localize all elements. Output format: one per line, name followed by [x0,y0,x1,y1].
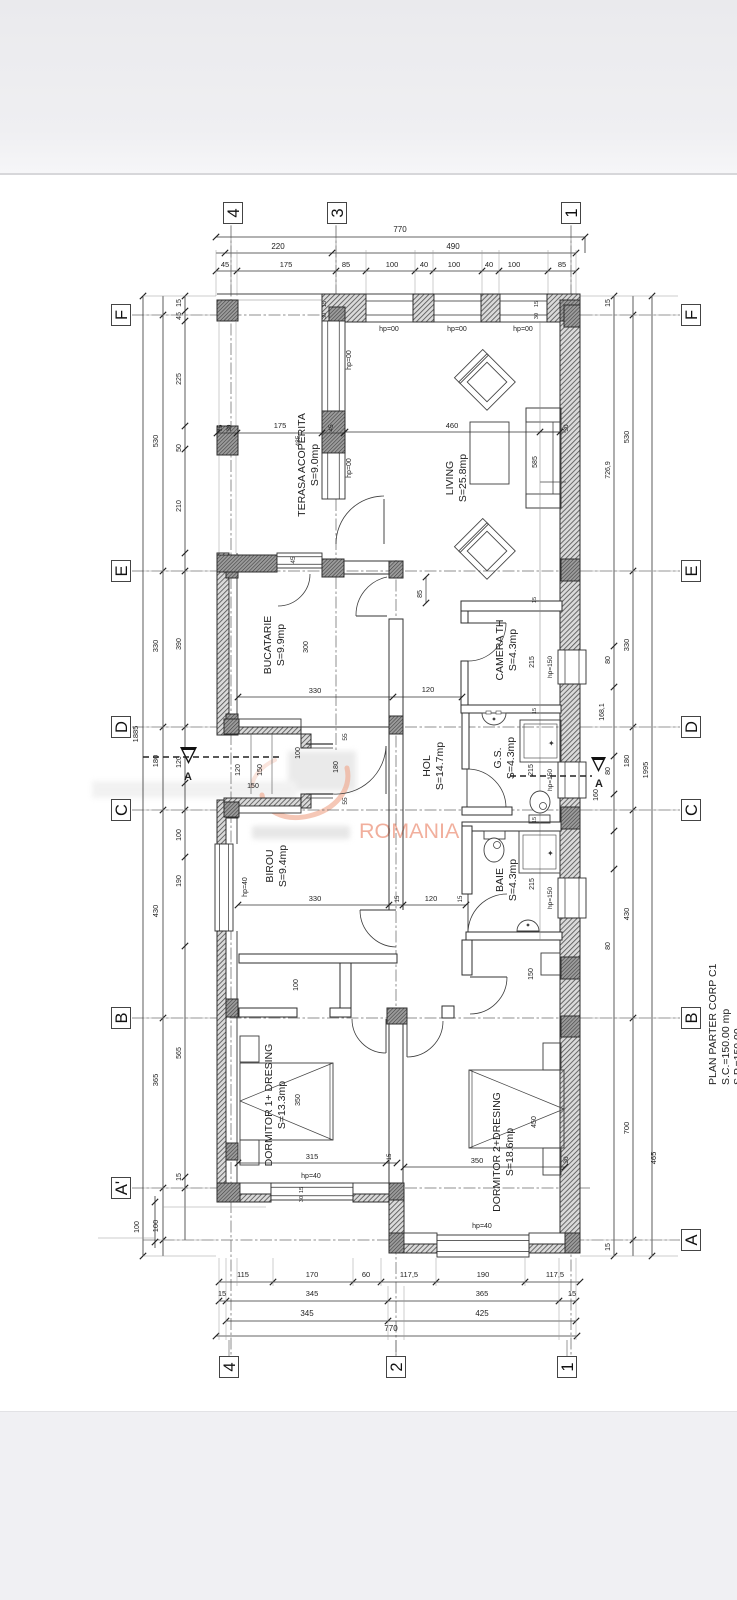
sofa living [526,408,561,508]
svg-text:770: 770 [384,1324,398,1333]
wall baie top [462,822,561,831]
svg-text:hp=00: hp=00 [379,326,399,333]
svg-text:300: 300 [303,641,310,653]
svg-text:530: 530 [151,435,160,448]
svg-text:hp=40: hp=40 [472,1223,492,1230]
door GS [466,769,468,807]
grid bubble D right [682,717,701,738]
svg-text:30: 30 [322,313,328,319]
wardrobe dorm2 top [541,953,560,975]
door kitchen-hol [356,615,387,617]
dim 85 living-hol opening [425,577,427,603]
svg-text:F: F [683,310,701,320]
grid bubble B right [682,1008,701,1029]
svg-text:117,5: 117,5 [400,1270,418,1279]
terrace left colonnade edge lines [218,321,220,553]
svg-text:15: 15 [534,301,540,307]
svg-text:215: 215 [529,878,536,890]
bottom dimension row 345/425 [226,1320,576,1322]
bottom wall right seg1 [404,1233,437,1244]
svg-text:430: 430 [151,905,160,918]
svg-text:315: 315 [306,1152,319,1161]
wall E-row kitchen top [344,560,389,562]
svg-text:S=4.3mp: S=4.3mp [507,629,519,671]
svg-text:✦: ✦ [548,739,555,748]
svg-text:S=25.8mp: S=25.8mp [457,454,469,502]
svg-text:hp=150: hp=150 [547,656,554,678]
svg-text:hp=00: hp=00 [346,458,353,478]
grid line C (horizontal) [132,809,680,811]
left grid spacing chain [162,296,164,1256]
pier D grid2 [389,716,403,734]
svg-text:DORMITOR 1+ DRESING: DORMITOR 1+ DRESING [263,1044,275,1167]
svg-text:hp=40: hp=40 [301,1173,321,1180]
top wall pier 40b [481,294,500,322]
door swing dorm1 [352,1019,386,1053]
kitchen bottom wall [224,719,301,727]
svg-text:117,5: 117,5 [546,1270,564,1279]
dorm2 dim row 350/30 [404,1166,565,1168]
svg-text:S.P.=150.00: S.P.=150.00 [732,1028,737,1085]
grid bubble 2 bottom [387,1357,406,1378]
watermark orange swirl [262,768,348,818]
svg-text:220: 220 [271,242,285,251]
svg-text:330: 330 [622,639,631,652]
svg-text:215: 215 [529,656,536,668]
svg-text:hp=40: hp=40 [242,877,249,897]
svg-text:45: 45 [176,312,183,320]
svg-text:80: 80 [605,942,612,950]
svg-text:175: 175 [274,421,287,430]
svg-text:225: 225 [176,373,183,385]
sink GS [482,713,506,725]
svg-text:F: F [113,310,131,320]
pier right C [561,807,580,829]
svg-text:G.S.: G.S. [492,747,504,768]
bottom wall seg2 hatch [353,1194,389,1202]
svg-text:115: 115 [237,1270,249,1279]
grid bubble 1 top [562,203,581,224]
left wall dorm1 [217,931,226,1183]
svg-text:3: 3 [329,208,347,217]
svg-text:770: 770 [393,225,407,234]
grid bubble B left [112,1008,131,1029]
corner column step lower [389,1233,404,1253]
door swing GS [469,769,506,807]
nightstand dorm1 bottom [240,1140,259,1165]
left inner chain [184,296,186,1240]
window terrace hp=00 lower [322,453,345,499]
dim 460 living [345,431,560,433]
svg-text:80: 80 [605,656,612,664]
right inner chain [613,296,615,1256]
top wall pier 85 [322,294,366,322]
svg-text:40: 40 [485,260,493,269]
grid bubble E right [682,561,701,582]
leader grid 3 [335,225,337,300]
svg-text:120: 120 [235,764,242,776]
right wall seg GS-BAIE [560,798,580,878]
armchair living 1 [454,349,515,410]
svg-text:D: D [113,721,131,733]
bottom dimension row total 770 [216,1335,577,1337]
grid bubble 4 bottom [220,1357,239,1378]
wall dressing stub [340,963,351,1008]
kitchen dim row 330/120 [238,696,462,698]
pier left wall B [226,999,238,1017]
left extension lines [143,295,216,297]
grid bubble F right [682,305,701,326]
svg-text:85: 85 [417,590,424,598]
svg-text:85: 85 [342,260,350,269]
svg-text:15: 15 [458,895,464,902]
grid bubble A right [682,1230,701,1251]
bed dorm1 [240,1063,333,1140]
window camera tehnica hp=150 [558,650,586,684]
left outer chain 1885 [142,296,144,1256]
door swing kitchen-hol [356,577,387,616]
wall baie left [462,826,472,894]
svg-text:190: 190 [176,875,183,887]
svg-text:BIROU: BIROU [264,849,276,882]
svg-text:2: 2 [388,1362,406,1371]
svg-text:hp=00: hp=00 [346,350,353,370]
svg-text:530: 530 [622,431,631,444]
svg-text:15: 15 [532,597,538,603]
svg-text:45: 45 [328,424,335,432]
pier right mid [561,957,580,979]
svg-text:465: 465 [649,1152,658,1165]
svg-text:15: 15 [605,299,612,307]
sink baie [517,920,539,931]
svg-text:1: 1 [559,1362,577,1371]
grid line A (horizontal) [143,1239,680,1241]
recess wall upper [301,734,311,748]
coffee table living [470,422,509,484]
column terrace mid-left [217,426,238,455]
wall birou top hatch [224,798,301,806]
svg-text:E: E [683,565,701,576]
svg-text:4: 4 [221,1362,239,1371]
svg-text:330: 330 [309,686,322,695]
corner column step upper [389,1183,404,1200]
door terrace-living [383,499,385,544]
top wall corner pier [547,294,580,322]
svg-text:150: 150 [528,968,535,980]
extension lines top [215,250,217,296]
grid line 4 (vertical) [230,226,232,1355]
svg-text:BUCATARIE: BUCATARIE [262,616,274,675]
dim 585 extension line living [539,321,541,940]
svg-text:45: 45 [290,556,297,564]
svg-text:B: B [683,1012,701,1023]
door swing baie [468,894,507,933]
wall camera-th left stub [461,611,468,623]
grid bubble 4 top [224,203,243,224]
door dorm2 at B [406,1021,408,1057]
pier right D upper [561,688,580,719]
svg-text:450: 450 [531,1116,538,1128]
svg-text:50: 50 [176,444,183,452]
grid bubble 3 top [328,203,347,224]
pier terrace glazed wall [322,411,345,453]
svg-text:15: 15 [568,1289,576,1298]
leader grid 1 [570,225,572,296]
svg-text:S=14.7mp: S=14.7mp [434,742,446,790]
grid line B (horizontal) [132,1017,680,1019]
svg-text:S=9.4mp: S=9.4mp [277,845,289,887]
svg-text:1885: 1885 [131,726,140,743]
pier B grid2 [387,1008,407,1024]
window GS hp=150 [558,762,586,798]
door camera tehnica [468,622,506,624]
left chain 100 A'-A [154,1196,156,1248]
top dimension row 220/490 [216,252,576,254]
svg-text:180: 180 [333,761,340,773]
svg-text:215: 215 [528,764,535,776]
column terrace top-left [217,300,238,321]
svg-text:✦: ✦ [547,849,554,858]
window birou hp=40 [215,844,233,931]
svg-text:15: 15 [176,299,183,307]
svg-text:C: C [113,804,131,816]
terrace dim row 175/45 [217,432,344,434]
pier right E [561,559,580,581]
watermark blurred logo blob [92,751,356,839]
door swing dorm2 dressing [470,977,507,1014]
bottom dimension row 15/345/365/15 [219,1300,576,1302]
wall hol-dorm2 [462,940,472,975]
hol dim row 330/120 lower [238,904,466,906]
svg-text:120: 120 [176,756,183,768]
svg-text:CAMERA TH: CAMERA TH [494,619,506,680]
svg-text:120: 120 [422,685,435,694]
dorm1 dim row 315 [238,1162,397,1164]
svg-text:S.C.=150.00 mp: S.C.=150.00 mp [720,1009,732,1085]
right wall upper [560,321,580,650]
grid line F (horizontal) [132,314,680,316]
pier right F [564,305,580,327]
svg-text:30: 30 [563,424,570,432]
step wall vertical [389,1200,404,1233]
grid line E (horizontal) [132,570,680,572]
svg-text:190: 190 [477,1270,490,1279]
grid bubble F left [112,305,131,326]
wall B-row left [239,1008,297,1017]
wall GS bottom [462,807,512,815]
grid bubble 1 bottom [558,1357,577,1378]
svg-text:100: 100 [508,260,521,269]
door swing terrace-living [336,496,384,544]
glazed door terrace-kitchen [277,553,322,568]
svg-text:15: 15 [322,301,328,307]
svg-text:425: 425 [475,1309,489,1318]
svg-text:A': A' [113,1181,131,1195]
grid bubble C right [682,800,701,821]
grid bubble A' left [112,1178,131,1199]
svg-text:100: 100 [448,260,461,269]
nightstand dorm2 bottom [543,1148,561,1175]
svg-text:hp=00: hp=00 [513,326,533,333]
svg-text:PLAN PARTER CORP C1: PLAN PARTER CORP C1 [707,963,719,1085]
right extension lines [580,295,678,297]
wall B-row stub [330,1008,351,1017]
svg-text:DORMITOR 2+DRESING: DORMITOR 2+DRESING [491,1092,503,1212]
svg-text:430: 430 [622,908,631,921]
top wall pier 40 [413,294,434,322]
door baie [467,894,469,933]
recess wall lower [301,794,311,808]
door swing camera-th [468,623,506,661]
top wall corner pier dark [329,307,345,321]
grid line 2 (vertical) [395,560,397,1355]
svg-text:100: 100 [386,260,399,269]
bottom dimension row details [219,1281,580,1283]
door swing hol-birou [360,910,396,947]
grid line 1 (vertical) [570,226,572,1355]
svg-text:15: 15 [532,708,538,714]
pier C left dark [224,802,239,817]
svg-text:S=4.3mp: S=4.3mp [505,737,517,779]
svg-text:150: 150 [257,764,264,776]
svg-text:S=4.3mp: S=4.3mp [507,859,519,901]
wall GS left [462,713,469,769]
svg-text:345: 345 [306,1289,319,1298]
shower GS [520,720,561,762]
wall camera-th left [461,661,468,705]
pier right B [561,1016,580,1037]
svg-text:S=9.9mp: S=9.9mp [275,624,287,666]
door hol-dorm1 [385,1019,387,1053]
bottom wall right seg2 hatch [529,1244,565,1253]
corner column bottom-right [565,1233,580,1253]
svg-text:100: 100 [151,1220,160,1233]
toilet GS [529,815,550,823]
svg-text:15: 15 [176,1173,183,1181]
svg-text:55: 55 [342,797,349,805]
svg-text:490: 490 [446,242,460,251]
svg-text:15: 15 [387,1153,393,1160]
svg-text:hp=00: hp=00 [447,326,467,333]
svg-text:100: 100 [295,747,302,759]
svg-text:E: E [113,565,131,576]
svg-text:585: 585 [532,456,539,468]
right grid chain [632,296,634,1256]
right outer chain 1995 [651,296,653,1256]
wall E-row left [217,555,277,572]
pier D left dark [224,719,239,734]
svg-text:100: 100 [134,1221,141,1233]
svg-text:30: 30 [299,1196,305,1202]
svg-text:210: 210 [176,500,183,512]
bottom wall right seg1 hatch [404,1244,437,1253]
svg-text:15: 15 [532,817,538,823]
wall grid2 kitchen [389,619,403,716]
grid bubble C left [112,800,131,821]
svg-text:85: 85 [558,260,566,269]
svg-text:80: 80 [605,767,612,775]
svg-text:LIVING: LIVING [444,461,456,495]
window baie hp=150 [558,878,586,918]
grid line 3 (vertical) [335,226,337,750]
terrace roof edge line [217,293,336,295]
window W3 top [500,294,547,322]
svg-text:15: 15 [299,1187,305,1193]
svg-text:hp=150: hp=150 [547,887,554,909]
nightstand dorm1 top [240,1036,259,1062]
svg-text:330: 330 [151,640,160,653]
toilet baie [484,831,505,839]
svg-text:4: 4 [225,208,243,217]
svg-text:15: 15 [605,1243,612,1251]
svg-text:S=18.6mp: S=18.6mp [504,1128,516,1176]
svg-text:170: 170 [306,1270,319,1279]
pier E grid2 [389,561,403,578]
door hol-dorm2 upper [470,976,507,978]
svg-text:C: C [683,804,701,816]
right wall seg CT-GS [560,684,580,762]
svg-text:565: 565 [176,1047,183,1059]
top gray banner band [0,0,737,174]
top dimension row total 770 [216,236,585,238]
corner column bottom-left [217,1183,240,1202]
left wall kitchen [217,553,229,735]
svg-text:180: 180 [622,755,631,768]
top-right corner column [560,300,580,327]
front entrance door [385,746,387,794]
grid line D (horizontal) [132,726,680,728]
wall baie bottom [466,932,562,940]
svg-text:150: 150 [247,783,259,790]
svg-text:100: 100 [293,979,300,991]
svg-text:15: 15 [218,424,224,431]
svg-text:726,9: 726,9 [605,461,612,479]
wall birou bottom [239,954,397,963]
section A-A marker right [591,757,606,772]
window dorm1 hp=40 [271,1183,353,1200]
door hol-birou [360,909,396,911]
wall kitchen bottom hatch [224,727,301,734]
pier E grid3 [322,559,344,577]
svg-text:A: A [683,1234,701,1245]
svg-text:60: 60 [362,1270,370,1279]
grid bubble E left [112,561,131,582]
wall B-row right stub [442,1006,454,1018]
grid line A' (horizontal) [132,1187,590,1189]
svg-text:55: 55 [342,733,349,741]
svg-text:120: 120 [425,894,438,903]
grid bubble D left [112,717,131,738]
top dimension row details [216,270,576,272]
armchair living 2 [454,518,515,579]
svg-text:40: 40 [420,260,428,269]
window dorm2 hp=40 [437,1235,529,1257]
bottom gray band [0,1412,737,1600]
svg-text:B: B [113,1012,131,1023]
pier left wall D [226,714,238,735]
window terrace hp=00 upper [322,321,345,411]
section A-A marker left [180,747,197,764]
right wall lower [560,918,580,1233]
svg-text:100: 100 [176,829,183,841]
svg-text:S=13.3mp: S=13.3mp [276,1081,288,1129]
nightstand dorm2 top [543,1043,561,1070]
svg-text:700: 700 [622,1122,631,1135]
svg-text:hp=150: hp=150 [547,769,554,791]
svg-text:D: D [683,721,701,733]
svg-text:330: 330 [309,894,322,903]
wall camera-th top [461,601,562,611]
